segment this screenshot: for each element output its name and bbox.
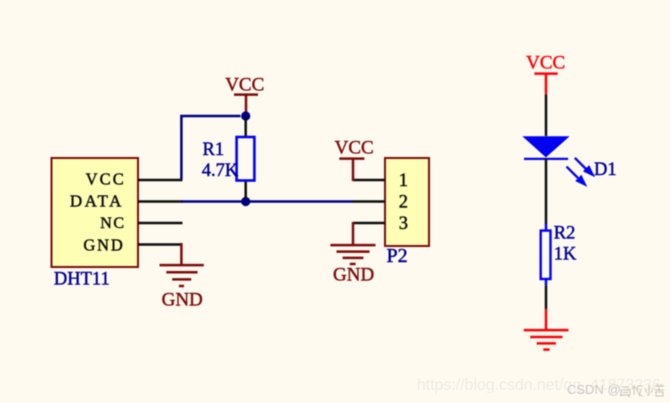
svg-text:R2: R2 [554,224,576,244]
svg-text:VCC: VCC [86,170,126,189]
svg-text:https://blog.csdn.net/qq_41873: https://blog.csdn.net/qq_41873236 [417,377,661,394]
svg-text:GND: GND [83,235,124,254]
svg-text:R1: R1 [203,140,225,160]
svg-text:VCC: VCC [225,75,264,96]
svg-text:P2: P2 [387,245,408,267]
svg-text:VCC: VCC [335,138,374,159]
svg-text:CSDN @: CSDN @ [567,382,621,397]
svg-text:D1: D1 [594,160,617,180]
svg-text:VCC: VCC [526,53,565,74]
svg-text:2: 2 [399,192,408,212]
svg-text:4.7K: 4.7K [202,161,239,181]
svg-text:1: 1 [399,171,408,191]
svg-text:3: 3 [399,214,408,234]
svg-text:NC: NC [100,215,125,232]
svg-text:GND: GND [333,265,374,286]
svg-text:DATA: DATA [70,192,124,211]
svg-text:DHT11: DHT11 [54,269,110,289]
svg-text:1K: 1K [554,245,577,265]
svg-text:GND: GND [162,289,203,310]
